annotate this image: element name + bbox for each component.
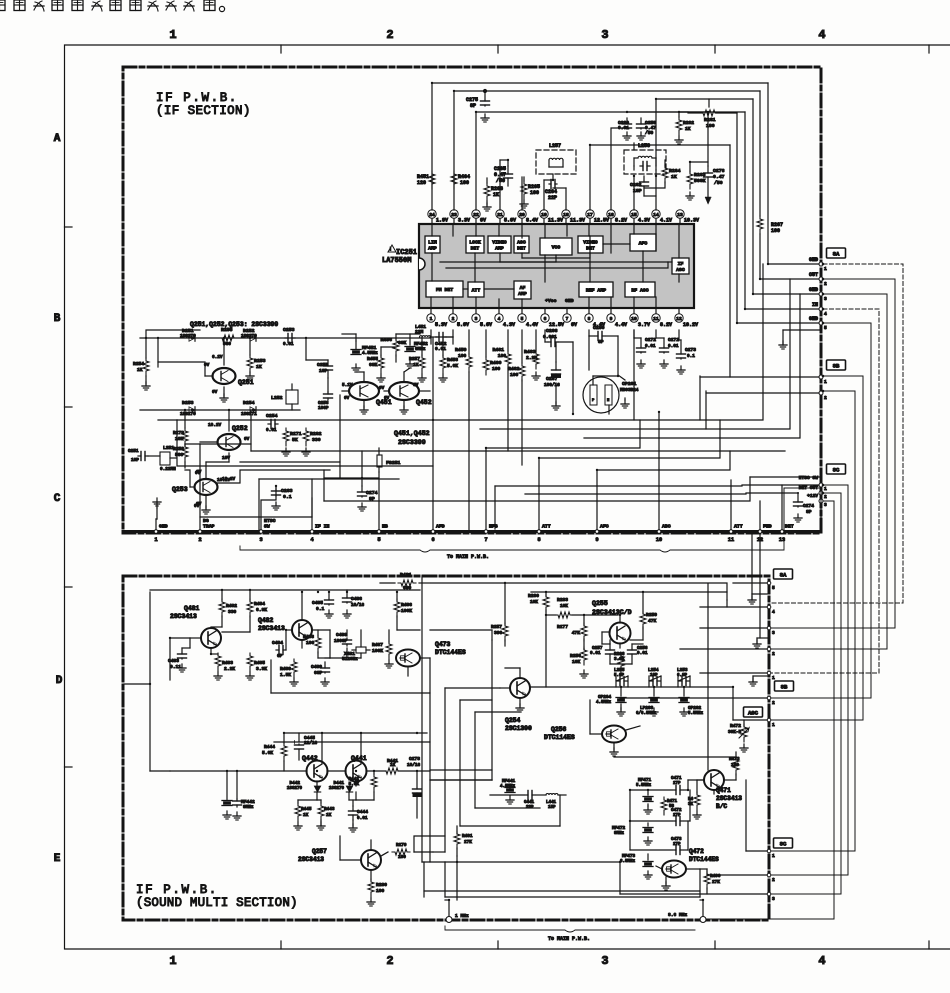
svg-text:C273: C273 bbox=[685, 347, 696, 353]
capacitor C472 bbox=[673, 820, 676, 822]
svg-text:13: 13 bbox=[677, 212, 683, 218]
svg-text:10.2V: 10.2V bbox=[683, 322, 698, 328]
IC251 pin 18 bbox=[565, 218, 567, 224]
IC251 block VCO bbox=[540, 238, 572, 255]
connector 8A pin 5 GND bbox=[819, 321, 823, 325]
svg-text:3.7V: 3.7V bbox=[638, 322, 650, 328]
svg-text:100: 100 bbox=[398, 855, 406, 860]
IC251 pin 23 bbox=[453, 218, 455, 224]
svg-text:C276: C276 bbox=[713, 168, 725, 174]
connector pin 7 HFB bbox=[484, 530, 488, 534]
svg-text:3: 3 bbox=[824, 502, 827, 508]
svg-text:12: 12 bbox=[676, 316, 682, 322]
svg-text:3.3V: 3.3V bbox=[458, 218, 470, 224]
svg-text:ABC: ABC bbox=[662, 524, 671, 530]
fuse FS251 bbox=[377, 455, 382, 467]
svg-text:DTC144ES: DTC144ES bbox=[435, 649, 466, 656]
capacitor C471 bbox=[673, 789, 676, 791]
IC251 block ATT bbox=[468, 282, 484, 297]
svg-text:D: D bbox=[56, 675, 63, 687]
svg-text:R491: R491 bbox=[462, 834, 473, 839]
wire bus junctions bbox=[483, 89, 486, 92]
svg-text:(IF SECTION): (IF SECTION) bbox=[156, 104, 251, 118]
svg-text:R463: R463 bbox=[524, 349, 536, 355]
resistor R481 bbox=[398, 580, 416, 586]
connector 8C pin 3 bbox=[819, 499, 823, 503]
svg-text:DTC114ES: DTC114ES bbox=[544, 734, 575, 741]
resistor R282 bbox=[303, 428, 309, 446]
svg-text:GND: GND bbox=[809, 316, 818, 322]
wire sound row e link bbox=[414, 836, 445, 852]
connector sound pin 2 bbox=[767, 696, 771, 700]
svg-text:0V: 0V bbox=[379, 386, 385, 391]
svg-text:4.3V: 4.3V bbox=[503, 322, 515, 328]
svg-text:C251: C251 bbox=[128, 449, 139, 454]
filter MF471 bbox=[643, 796, 653, 798]
svg-text:C272: C272 bbox=[645, 337, 656, 343]
svg-text:1.9V: 1.9V bbox=[436, 218, 448, 224]
svg-text:47K: 47K bbox=[648, 618, 657, 624]
svg-text:1.5K: 1.5K bbox=[280, 672, 291, 678]
svg-text:C254: C254 bbox=[266, 413, 278, 419]
capacitor C484 bbox=[276, 649, 279, 651]
wire tl extra 2 bbox=[240, 461, 340, 463]
svg-text:2: 2 bbox=[772, 877, 775, 883]
svg-text:1SS270: 1SS270 bbox=[180, 334, 196, 339]
connector sound pin 1 bbox=[767, 718, 771, 722]
resistor R271 bbox=[283, 428, 289, 446]
svg-text:DET: DET bbox=[471, 246, 480, 252]
svg-text:B/C: B/C bbox=[716, 803, 727, 810]
svg-text:R486: R486 bbox=[401, 602, 412, 608]
svg-text:0.01: 0.01 bbox=[283, 342, 294, 347]
svg-text:7: 7 bbox=[566, 316, 569, 322]
svg-text:Q253: Q253 bbox=[172, 486, 188, 493]
wire Q255 net bbox=[545, 592, 547, 596]
resistor R267 bbox=[757, 216, 763, 234]
svg-text:R279: R279 bbox=[396, 843, 407, 848]
resistor R488 bbox=[315, 635, 321, 653]
svg-text:C274: C274 bbox=[803, 503, 814, 509]
svg-text:OUT: OUT bbox=[809, 272, 818, 278]
connector pin 5 HB bbox=[377, 530, 381, 534]
svg-text:22: 22 bbox=[473, 212, 479, 218]
svg-text:10: 10 bbox=[656, 537, 662, 543]
transistor Q256 bbox=[602, 726, 626, 743]
svg-text:Q442: Q442 bbox=[302, 755, 318, 762]
svg-text:2: 2 bbox=[772, 700, 775, 706]
wire bottom risers bbox=[448, 900, 450, 916]
svg-text:100: 100 bbox=[458, 353, 467, 359]
connector sound pin 1 bbox=[767, 671, 771, 675]
svg-text:D254: D254 bbox=[243, 400, 255, 406]
svg-text:TRAP: TRAP bbox=[203, 524, 215, 530]
svg-text:0.01: 0.01 bbox=[645, 344, 656, 349]
resistor R444 bbox=[281, 743, 287, 761]
svg-text:LP203: LP203 bbox=[640, 706, 654, 711]
resistor R264 bbox=[662, 165, 668, 183]
svg-text:R460: R460 bbox=[490, 360, 502, 366]
transistor Q252 bbox=[218, 434, 241, 450]
svg-text:MF473: MF473 bbox=[622, 854, 636, 859]
wire L258 feed bbox=[611, 128, 627, 210]
svg-text:0.01: 0.01 bbox=[357, 816, 368, 821]
inductor L254 bbox=[650, 680, 653, 682]
svg-text:NTSC SW: NTSC SW bbox=[799, 475, 819, 481]
IC251 pin 19 bbox=[543, 218, 545, 224]
svg-text:!: ! bbox=[389, 247, 392, 253]
svg-text:R443: R443 bbox=[324, 807, 335, 812]
svg-text:0V: 0V bbox=[480, 218, 486, 224]
svg-text:R261: R261 bbox=[704, 117, 716, 123]
diode D442 bbox=[314, 786, 320, 792]
svg-text:8.2V: 8.2V bbox=[615, 218, 627, 224]
IC251 pin 20 bbox=[521, 218, 523, 224]
connector 8A pin 2 OUT bbox=[819, 277, 823, 281]
wire abc net bbox=[588, 330, 590, 336]
svg-text:Q251,Q252,Q253: 2SC3399: Q251,Q252,Q253: 2SC3399 bbox=[190, 321, 278, 328]
svg-text:R462: R462 bbox=[508, 366, 520, 372]
node bottom edge 8.6MHz bbox=[700, 917, 706, 923]
resistor R484 bbox=[247, 599, 253, 617]
svg-text:10K: 10K bbox=[572, 659, 581, 665]
resistor R256 bbox=[581, 647, 587, 665]
svg-text:AMP: AMP bbox=[518, 291, 527, 297]
wire Q257 net bbox=[370, 840, 372, 850]
inductor L258 bbox=[624, 150, 666, 174]
svg-text:R472: R472 bbox=[730, 723, 741, 729]
capacitor C276 bbox=[707, 166, 709, 171]
capacitor C260 bbox=[626, 118, 628, 122]
wire vertical pin8 bbox=[539, 438, 720, 529]
svg-text:100K: 100K bbox=[372, 648, 383, 654]
IC251 block IF AGC bbox=[672, 258, 689, 274]
svg-text:0V: 0V bbox=[571, 322, 577, 328]
svg-text:R256: R256 bbox=[173, 446, 184, 452]
IC251 pin 21 bbox=[499, 218, 501, 224]
svg-text:10P: 10P bbox=[131, 458, 139, 463]
resistor R490 bbox=[704, 871, 710, 889]
svg-text:L253: L253 bbox=[677, 668, 688, 673]
wire sound left vertical bbox=[149, 592, 151, 684]
IC251 pin 9 bbox=[610, 308, 612, 314]
svg-text:27K: 27K bbox=[464, 840, 472, 845]
svg-text:9MHz: 9MHz bbox=[243, 805, 254, 810]
svg-text:R459: R459 bbox=[455, 347, 467, 353]
svg-text:/50: /50 bbox=[714, 180, 723, 186]
IF SECTION enclosure box bbox=[123, 67, 821, 533]
svg-text:12: 12 bbox=[757, 537, 763, 543]
wire 12.5V node bbox=[544, 330, 546, 342]
transistor Q254 bbox=[510, 678, 530, 698]
resistor R471 bbox=[661, 797, 667, 815]
svg-text:GND: GND bbox=[809, 257, 818, 263]
IC251 block AFC bbox=[630, 234, 656, 251]
svg-text:R487: R487 bbox=[372, 642, 383, 648]
resistor R442 bbox=[371, 774, 377, 792]
svg-text:27K: 27K bbox=[712, 880, 720, 885]
svg-text:R264: R264 bbox=[669, 168, 681, 174]
capacitor C272 bbox=[633, 330, 635, 338]
IC251 block LOCK DET bbox=[466, 236, 484, 253]
wire R278 net bbox=[184, 410, 186, 428]
ground right riser bbox=[782, 341, 784, 345]
svg-text:C271: C271 bbox=[668, 337, 679, 343]
transistor Q481 bbox=[201, 628, 221, 648]
wire vertical pin11 bbox=[730, 480, 732, 529]
svg-text:8: 8 bbox=[588, 316, 591, 322]
resistor R263 bbox=[687, 171, 693, 189]
svg-text:2: 2 bbox=[386, 954, 393, 968]
resistor R455 bbox=[378, 355, 384, 373]
capacitor C262 bbox=[643, 176, 645, 180]
svg-text:3: 3 bbox=[475, 316, 478, 322]
svg-text:10.2V: 10.2V bbox=[208, 423, 222, 428]
IC251 pin 12 bbox=[678, 308, 680, 314]
IC251 pin 1 bbox=[430, 308, 432, 314]
wire hb net bbox=[361, 478, 363, 486]
SOUND MULTI enclosure box bbox=[123, 576, 769, 920]
svg-text:68K: 68K bbox=[369, 362, 378, 368]
svg-text:R257: R257 bbox=[491, 624, 502, 630]
svg-text:6P: 6P bbox=[277, 654, 283, 659]
wire routing h4 bbox=[251, 450, 785, 452]
resistor R485 bbox=[247, 653, 253, 671]
svg-text:12.5V: 12.5V bbox=[549, 322, 564, 328]
IC251 block AF AMP bbox=[514, 281, 531, 299]
svg-text:0V: 0V bbox=[244, 437, 250, 442]
svg-text:L255: L255 bbox=[614, 668, 625, 673]
svg-text:SW: SW bbox=[264, 524, 270, 530]
wire pin20 riser bbox=[521, 177, 523, 210]
svg-text:6.5MHz: 6.5MHz bbox=[620, 860, 636, 864]
svg-text:FHD: FHD bbox=[763, 524, 772, 530]
svg-text:5.0V: 5.0V bbox=[504, 218, 516, 224]
resistor R456 bbox=[393, 338, 399, 356]
svg-text:1K: 1K bbox=[671, 174, 677, 180]
wire sound top entries bbox=[751, 533, 753, 594]
svg-text:2.2K: 2.2K bbox=[224, 666, 235, 672]
svg-text:DTC144ES: DTC144ES bbox=[689, 856, 719, 863]
resistor R462 bbox=[519, 363, 525, 381]
svg-text:R483: R483 bbox=[222, 660, 233, 666]
svg-text:3: 3 bbox=[259, 537, 262, 543]
svg-text:C489: C489 bbox=[311, 664, 322, 670]
svg-text:10: 10 bbox=[631, 316, 637, 322]
svg-text:100: 100 bbox=[498, 353, 507, 359]
svg-text:8B: 8B bbox=[833, 362, 840, 369]
svg-text:C262: C262 bbox=[630, 182, 642, 188]
inductor L252 bbox=[286, 390, 298, 404]
IC251 pin 11 bbox=[655, 308, 657, 314]
svg-text:R255: R255 bbox=[221, 327, 233, 333]
svg-text:27P: 27P bbox=[673, 843, 681, 847]
svg-text:6.8K: 6.8K bbox=[256, 607, 267, 613]
svg-text:DET: DET bbox=[517, 246, 526, 252]
svg-text:Q481: Q481 bbox=[184, 605, 200, 612]
wire pin rows below bbox=[430, 330, 432, 338]
svg-text:17: 17 bbox=[587, 212, 593, 218]
svg-text:5.1V: 5.1V bbox=[342, 383, 353, 388]
capacitor C483 bbox=[181, 648, 183, 652]
svg-text:15: 15 bbox=[631, 212, 637, 218]
svg-text:2SC3413: 2SC3413 bbox=[170, 613, 197, 620]
capacitor C259 bbox=[640, 118, 642, 122]
svg-text:10.3V: 10.3V bbox=[684, 218, 699, 224]
svg-text:R271: R271 bbox=[290, 431, 302, 437]
svg-text:18: 18 bbox=[563, 212, 569, 218]
IC251 pin 6 bbox=[544, 308, 546, 314]
IC251 block LIM AMP bbox=[425, 236, 440, 253]
svg-text:8C: 8C bbox=[780, 840, 787, 847]
capacitor C275 bbox=[484, 91, 486, 99]
wire mid extra bbox=[633, 330, 635, 420]
svg-text:2: 2 bbox=[824, 494, 827, 500]
connector sound pin 3 bbox=[767, 626, 771, 630]
svg-text:Q441: Q441 bbox=[351, 755, 367, 762]
ground sound edge 1 bbox=[751, 596, 753, 600]
svg-text:8.2V: 8.2V bbox=[660, 322, 672, 328]
resistor R482 bbox=[219, 599, 225, 617]
svg-text:1SS271: 1SS271 bbox=[241, 412, 257, 417]
wire if box mid extra bbox=[361, 451, 363, 478]
resistor R461 bbox=[505, 351, 511, 369]
capacitor C485 bbox=[328, 592, 330, 598]
IC251 block RF AGC bbox=[625, 282, 655, 297]
capacitor C278 bbox=[416, 771, 418, 787]
wire top bus 1 bbox=[432, 83, 768, 210]
wire sound mid horizontals bbox=[445, 687, 500, 689]
IF box bottom connector rail bbox=[123, 530, 821, 533]
svg-text:MF441: MF441 bbox=[502, 779, 516, 784]
op-amp U1 IC251 LA7550M body bbox=[419, 224, 694, 308]
svg-text:0.11: 0.11 bbox=[170, 664, 181, 670]
wire sound vertical spine bbox=[421, 576, 423, 862]
svg-text:180: 180 bbox=[706, 123, 715, 129]
svg-text:10/16: 10/16 bbox=[351, 603, 365, 608]
connector 8A pin 1 GND bbox=[819, 262, 823, 266]
capacitor C265 bbox=[507, 166, 509, 172]
svg-text:19: 19 bbox=[541, 212, 547, 218]
IC CP201 bbox=[583, 377, 619, 413]
svg-text:100: 100 bbox=[492, 366, 501, 372]
svg-text:IF: IF bbox=[678, 261, 684, 267]
capacitor C486 electrolytic bbox=[346, 590, 348, 596]
connector sound pin 4 bbox=[767, 605, 771, 609]
inductor L255 bbox=[617, 680, 620, 682]
svg-text:5: 5 bbox=[521, 316, 524, 322]
transistor Q482 bbox=[292, 620, 312, 640]
wire top bus 2 bbox=[454, 91, 760, 210]
inductor L251 bbox=[160, 452, 170, 465]
IC251 block AGC DET bbox=[514, 236, 529, 253]
svg-text:R4: R4 bbox=[688, 798, 694, 802]
wire Q254 net bbox=[519, 668, 521, 678]
svg-text:21: 21 bbox=[497, 212, 503, 218]
wire pin19 riser bbox=[543, 180, 545, 210]
wire Q253 out bbox=[216, 470, 330, 483]
svg-text:3: 3 bbox=[601, 28, 608, 42]
svg-text:4: 4 bbox=[310, 537, 313, 543]
wire routing h3 bbox=[584, 294, 800, 438]
svg-text:120: 120 bbox=[417, 180, 426, 186]
svg-text:5.6K: 5.6K bbox=[447, 363, 458, 369]
connector sound 8C pin 2 bbox=[767, 873, 771, 877]
resistor R489 bbox=[291, 659, 297, 677]
svg-text:1: 1 bbox=[169, 28, 176, 42]
svg-text:22P: 22P bbox=[548, 195, 557, 201]
wire pin15 riser bbox=[633, 176, 635, 210]
svg-text:560K: 560K bbox=[694, 178, 706, 184]
To MAIN PWB bracket top bbox=[240, 546, 770, 552]
svg-text:C471: C471 bbox=[671, 776, 682, 781]
resistor R257c bbox=[502, 623, 508, 641]
svg-text:1K: 1K bbox=[256, 364, 262, 370]
svg-text:1K: 1K bbox=[303, 813, 309, 818]
capacitor C254 bbox=[268, 423, 271, 425]
svg-text:D441: D441 bbox=[333, 781, 344, 786]
resistor R265 bbox=[521, 181, 527, 199]
svg-text:0.01: 0.01 bbox=[590, 651, 601, 656]
inductor L441 bbox=[546, 794, 558, 796]
resistor R261 bbox=[700, 110, 718, 116]
svg-text:1K: 1K bbox=[685, 126, 691, 132]
svg-text:AFC: AFC bbox=[600, 524, 609, 530]
svg-text:R484: R484 bbox=[254, 601, 265, 607]
svg-text:R458: R458 bbox=[447, 357, 458, 363]
connector pin 13 DET bbox=[780, 530, 784, 534]
svg-text:HFB: HFB bbox=[489, 524, 498, 530]
resistor R491 bbox=[454, 831, 460, 849]
svg-text:8B: 8B bbox=[781, 683, 788, 690]
svg-text:AFD: AFD bbox=[436, 524, 445, 530]
wire Q253 leads bbox=[205, 462, 207, 479]
svg-text:1SS270: 1SS270 bbox=[329, 787, 345, 791]
wire bundle route bbox=[771, 376, 863, 720]
IC251 block REF AMP bbox=[579, 282, 613, 297]
capacitor C441 bbox=[525, 794, 528, 796]
svg-text:Q255: Q255 bbox=[592, 600, 608, 607]
wire C255 net bbox=[305, 338, 307, 360]
capacitor C266 bbox=[548, 341, 551, 343]
svg-text:L441: L441 bbox=[546, 801, 557, 805]
svg-text:Q251: Q251 bbox=[238, 379, 254, 386]
svg-text:E: E bbox=[54, 853, 61, 865]
svg-text:68K: 68K bbox=[398, 340, 407, 346]
svg-text:C484: C484 bbox=[272, 640, 283, 646]
svg-text:R260: R260 bbox=[528, 593, 539, 599]
capacitor C452 bbox=[436, 336, 439, 338]
wire bundle route 8C3 bbox=[706, 501, 834, 919]
svg-text:AMP: AMP bbox=[428, 246, 437, 252]
connector 8B label bbox=[827, 360, 846, 370]
svg-text:C473: C473 bbox=[671, 837, 682, 842]
transistor Q253 bbox=[195, 479, 218, 495]
wire vertical pin13 bbox=[781, 485, 783, 529]
filter MF451 bbox=[351, 349, 361, 351]
svg-text:R257: R257 bbox=[409, 356, 420, 362]
wire routing h2 bbox=[480, 279, 790, 429]
resistor R487 bbox=[386, 641, 392, 659]
svg-text:4.3V: 4.3V bbox=[638, 218, 650, 224]
svg-text:12.5V: 12.5V bbox=[594, 218, 609, 224]
transistor Q471 bbox=[704, 770, 724, 790]
resistor R260c bbox=[543, 594, 549, 612]
resistor R253 bbox=[247, 355, 253, 373]
wire pin21 riser bbox=[499, 160, 501, 210]
wire pin2 riser bbox=[199, 444, 201, 529]
resistor R486 bbox=[394, 599, 400, 617]
